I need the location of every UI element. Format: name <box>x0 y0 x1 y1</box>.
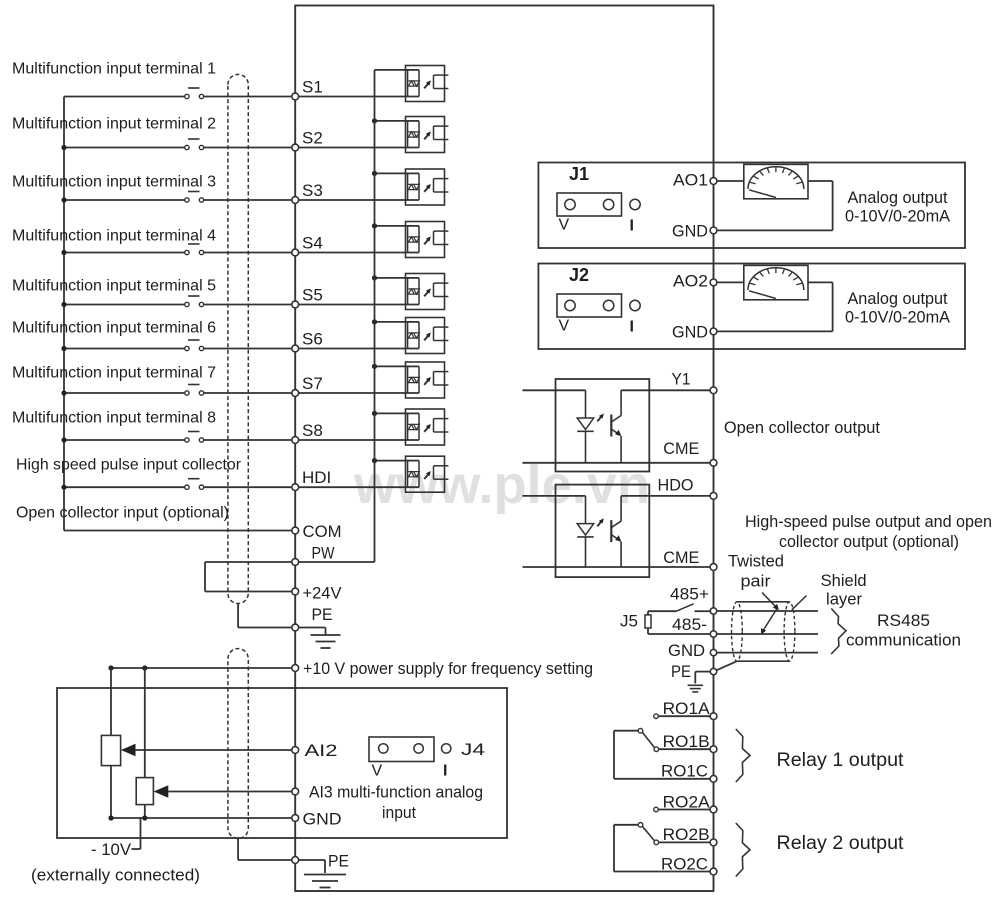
terminal AI2 <box>292 741 338 760</box>
jumper wire PW to +24V <box>205 561 292 563</box>
output optocoupler U11 light arrow <box>597 518 604 526</box>
svg-text:S6: S6 <box>302 330 323 349</box>
wire S4 to optocoupler <box>299 252 419 254</box>
terminal GND RS485 <box>668 641 717 660</box>
wire switch to terminal S5 <box>204 304 292 306</box>
svg-text:PE: PE <box>671 662 691 681</box>
wire row S6 left <box>64 348 185 350</box>
wire switch to terminal HDI <box>204 486 292 488</box>
svg-text:I: I <box>630 319 634 336</box>
potentiometer RP2 <box>136 668 153 818</box>
terminal S6 <box>292 330 323 352</box>
wire S7 to optocoupler <box>299 392 419 394</box>
wire S1 to optocoupler <box>299 96 419 98</box>
svg-text:Multifunction input terminal 6: Multifunction input terminal 6 <box>12 320 216 337</box>
terminal GND (J2) <box>672 323 717 342</box>
terminal S3 <box>292 181 323 203</box>
wire +24V bus branch row 6 <box>375 321 406 323</box>
switch SW1 <box>185 88 204 99</box>
junction on +24V bus row 4 <box>372 223 377 228</box>
svg-text:+24V: +24V <box>303 584 343 603</box>
svg-text:pair: pair <box>741 572 771 591</box>
terminal HDO <box>658 476 717 500</box>
svg-text:GND: GND <box>303 810 342 829</box>
junction on rail row HDI <box>61 485 66 490</box>
wire PE to shield layer <box>717 661 737 670</box>
terminal RO2B <box>663 825 717 846</box>
terminal RO2A <box>663 792 717 813</box>
terminal RO1B <box>663 732 717 753</box>
brace RS485 <box>831 609 846 655</box>
wire +10V supply to potentiometers <box>111 667 292 669</box>
terminal CME 2 <box>663 548 717 570</box>
relay RO2 pivot <box>638 823 643 828</box>
switch SW9 <box>185 479 204 490</box>
svg-text:HDO: HDO <box>658 476 694 495</box>
jumper J2 current pin <box>630 300 641 335</box>
wire 485+ into cable <box>717 610 818 612</box>
svg-text:PE: PE <box>328 852 349 871</box>
svg-text:Open collector output: Open collector output <box>724 418 880 437</box>
svg-text:S2: S2 <box>302 129 323 148</box>
external analog input box <box>57 688 507 838</box>
wire S8 to optocoupler <box>299 439 419 441</box>
svg-text:RO2C: RO2C <box>661 854 708 873</box>
analog output meter for AO1 <box>744 164 808 198</box>
junction on +24V bus row 6 <box>372 319 377 324</box>
svg-text:High-speed pulse output and op: High-speed pulse output and open <box>745 512 992 531</box>
svg-text:input: input <box>382 803 416 822</box>
output optocoupler U11 LED <box>523 496 594 567</box>
terminal PE RS485 <box>671 662 717 681</box>
wire +24V bus branch row 3 <box>375 172 406 174</box>
wire switch to terminal S8 <box>204 439 292 441</box>
svg-text:J5: J5 <box>620 612 638 631</box>
terminal S7 <box>292 374 323 396</box>
output optocoupler U10 phototransistor <box>611 390 621 463</box>
potentiometer RP1 wiper arrow <box>121 744 136 756</box>
terminating resistor J5 <box>620 612 651 631</box>
wire row S4 left <box>64 252 185 254</box>
switch SW3 <box>185 192 204 203</box>
svg-text:S1: S1 <box>302 78 323 97</box>
svg-text:HDI: HDI <box>302 468 331 487</box>
svg-text:+10 V power supply for frequen: +10 V power supply for frequency setting <box>303 659 593 678</box>
wire J5 to 485+ with switch <box>648 604 710 615</box>
terminal RO1C <box>661 762 717 783</box>
terminal GND (J1) <box>672 222 717 241</box>
jumper J1 <box>557 164 622 234</box>
svg-text:J2: J2 <box>569 265 589 285</box>
junction on rail row S5 <box>61 302 66 307</box>
relay RO1 blade <box>642 732 654 748</box>
svg-text:I: I <box>630 218 634 235</box>
relay RO2B contact and wire <box>654 840 710 845</box>
input optocoupler U4 <box>406 222 449 258</box>
wire +24V bus branch row 8 <box>375 412 406 414</box>
terminal PE bottom <box>292 852 349 871</box>
wire +24V bus branch row 5 <box>375 277 406 279</box>
terminal PW <box>292 544 335 566</box>
svg-text:RO1A: RO1A <box>663 699 711 718</box>
terminal CME <box>663 439 717 466</box>
terminal 485- <box>672 615 717 637</box>
svg-text:- 10V: - 10V <box>91 840 132 859</box>
left common rail wire <box>63 97 65 531</box>
inverter enclosure box <box>295 6 713 892</box>
terminal RO1A <box>663 699 717 720</box>
junction on +24V bus row 3 <box>372 171 377 176</box>
cable 2 shield drain wire to PE <box>237 838 239 860</box>
svg-text:0-10V/0-20mA: 0-10V/0-20mA <box>845 207 951 226</box>
relay RO1A contact and wire <box>654 714 711 719</box>
svg-text:Multifunction input terminal 1: Multifunction input terminal 1 <box>12 61 216 78</box>
terminal S2 <box>292 129 323 151</box>
wire row S3 left <box>64 199 185 201</box>
shielded cable analog inputs <box>228 649 248 839</box>
potentiometer RP2 wiper arrow <box>154 785 169 797</box>
svg-text:Multifunction input terminal 2: Multifunction input terminal 2 <box>12 116 216 133</box>
terminal S5 <box>292 286 323 308</box>
svg-text:Multifunction input terminal 7: Multifunction input terminal 7 <box>12 365 216 382</box>
relay RO2A contact and wire <box>654 807 711 812</box>
output optocoupler U10 light arrow <box>597 413 604 421</box>
wire +24V bus branch row 9 <box>375 460 406 462</box>
potentiometer RP1 <box>101 668 120 818</box>
svg-text:CME: CME <box>663 548 699 567</box>
wire RP1 wiper to AI2 <box>136 749 292 751</box>
svg-text:Relay 1 output: Relay 1 output <box>777 750 905 771</box>
svg-text:Y1: Y1 <box>672 370 691 389</box>
terminal COM <box>292 522 342 541</box>
junction on +24V bus row 5 <box>372 275 377 280</box>
junction on rail row S3 <box>61 197 66 202</box>
svg-text:communication: communication <box>846 631 961 650</box>
terminal GND analog <box>292 810 342 829</box>
analog output meter for AO2 <box>744 265 808 299</box>
switch SW5 <box>185 296 204 307</box>
output optocoupler U10 LED <box>523 390 594 463</box>
svg-text:0-10V/0-20mA: 0-10V/0-20mA <box>845 308 951 327</box>
wire U10 collector to terminal <box>621 389 710 391</box>
jumper J1 current pin <box>630 199 641 234</box>
wire PW to +24V bus <box>299 561 375 563</box>
svg-text:Analog output: Analog output <box>848 289 948 308</box>
analog output block J1 box <box>538 163 965 249</box>
wire GND into cable <box>717 652 818 654</box>
svg-text:S8: S8 <box>302 421 323 440</box>
cable 1 shield drain wire to PE <box>237 604 239 628</box>
terminal RO2C <box>661 854 717 875</box>
svg-text:S5: S5 <box>302 286 323 305</box>
terminal S8 <box>292 421 323 443</box>
wire AO1 to meter <box>717 180 744 182</box>
svg-text:AI2: AI2 <box>305 741 338 760</box>
jumper J2 <box>557 265 622 335</box>
terminal +10V <box>292 659 593 678</box>
label: Shield layer with leader <box>792 571 867 610</box>
wire +24V bus branch row 7 <box>375 365 406 367</box>
svg-text:GND: GND <box>672 222 708 241</box>
wire meter to GND (J1) <box>808 180 833 182</box>
svg-text:High speed pulse input collect: High speed pulse input collector <box>16 457 242 474</box>
switch SW4 <box>185 244 204 255</box>
brace relay RO2 <box>736 823 750 877</box>
svg-text:Open collector input (optional: Open collector input (optional) <box>16 505 229 522</box>
svg-text:Multifunction input terminal 5: Multifunction input terminal 5 <box>12 278 216 295</box>
svg-text:collector output (optional): collector output (optional) <box>779 532 959 551</box>
leader -10V to common wire <box>132 848 141 850</box>
terminal PE <box>292 605 333 631</box>
svg-text:Multifunction input terminal 3: Multifunction input terminal 3 <box>12 174 216 191</box>
wire switch to terminal S4 <box>204 252 292 254</box>
svg-text:Relay 2 output: Relay 2 output <box>777 833 905 854</box>
brace relay RO1 <box>736 729 750 782</box>
wire row S8 left <box>64 439 185 441</box>
svg-text:S4: S4 <box>302 234 323 253</box>
junction on rail row S6 <box>61 346 66 351</box>
shielded cable digital inputs <box>228 74 248 603</box>
wire +24V bus branch row 1 <box>375 69 406 71</box>
wire S5 to optocoupler <box>299 304 419 306</box>
svg-text:CME: CME <box>663 439 699 458</box>
wire row HDI left <box>64 486 185 488</box>
relay RO2 common wire <box>614 825 710 872</box>
ground symbol at RS485 PE <box>688 672 711 692</box>
wire switch to terminal S1 <box>204 96 292 98</box>
junction on +24V bus row 2 <box>372 118 377 123</box>
svg-text:Analog output: Analog output <box>848 188 948 207</box>
svg-text:V: V <box>372 763 383 780</box>
relay RO2 blade <box>642 826 654 841</box>
input optocoupler U7 <box>406 362 449 398</box>
wire row S5 left <box>64 304 185 306</box>
svg-text:GND: GND <box>672 323 708 342</box>
svg-text:PW: PW <box>312 544 335 563</box>
terminal AI3 <box>292 788 299 795</box>
svg-text:J4: J4 <box>461 740 485 759</box>
wire row S1 left <box>64 96 185 98</box>
analog common wire to GND <box>111 817 292 819</box>
wire U10 emitter/common <box>523 462 711 464</box>
output optocoupler U11 box <box>556 485 650 577</box>
analog output block J2 box <box>538 264 965 350</box>
input optocoupler U1 <box>406 66 449 102</box>
svg-text:COM: COM <box>303 522 342 541</box>
input optocoupler U9 <box>406 456 449 492</box>
ground symbol at bottom PE <box>299 860 346 888</box>
wire S2 to optocoupler <box>299 147 419 149</box>
junction on rail row S4 <box>61 250 66 255</box>
input optocoupler U3 <box>406 169 449 205</box>
svg-text:AO2: AO2 <box>673 272 708 291</box>
terminal AO1 <box>673 171 717 190</box>
ground symbol at PE <box>299 628 341 649</box>
input optocoupler U2 <box>406 117 449 153</box>
junction on rail row S7 <box>61 390 66 395</box>
switch SW7 <box>185 385 204 396</box>
terminal 485+ <box>670 585 717 615</box>
svg-text:V: V <box>559 318 570 335</box>
svg-text:S7: S7 <box>302 374 323 393</box>
terminal HDI <box>292 468 331 490</box>
svg-text:layer: layer <box>826 590 862 609</box>
svg-text:RO2B: RO2B <box>663 825 710 844</box>
wire switch to terminal S2 <box>204 147 292 149</box>
svg-text:Multifunction input terminal 8: Multifunction input terminal 8 <box>12 410 216 427</box>
wire row S2 left <box>64 147 185 149</box>
svg-text:I: I <box>443 763 447 780</box>
wire +24V bus branch row 4 <box>375 225 406 227</box>
output optocoupler U10 box <box>556 379 650 472</box>
input optocoupler U5 <box>406 274 449 310</box>
wire AO2 to meter <box>717 281 744 283</box>
wire J5 to 485- <box>648 628 710 634</box>
wire HDI to optocoupler <box>299 486 419 488</box>
junction on rail row S2 <box>61 145 66 150</box>
junction on +24V bus row 9 <box>372 458 377 463</box>
wire open collector input to COM <box>64 530 292 532</box>
wire row S7 left <box>64 392 185 394</box>
svg-text:GND: GND <box>668 641 705 660</box>
jumper J4 current pin <box>442 740 486 780</box>
svg-text:S3: S3 <box>302 181 323 200</box>
wire switch to terminal S6 <box>204 348 292 350</box>
wire 485- into cable <box>717 633 818 635</box>
terminal Y1 <box>672 370 717 394</box>
terminal S1 <box>292 78 323 100</box>
svg-text:RS485: RS485 <box>877 611 930 630</box>
terminal +24V <box>292 584 342 603</box>
svg-text:AO1: AO1 <box>673 171 708 190</box>
svg-text:485-: 485- <box>672 615 707 634</box>
jumper J4 <box>369 737 434 780</box>
svg-text:RO1C: RO1C <box>661 762 708 781</box>
switch SW2 <box>185 139 204 150</box>
junction on +24V bus row 7 <box>372 364 377 369</box>
relay RO1 common wire <box>614 731 710 779</box>
svg-text:Multifunction input terminal 4: Multifunction input terminal 4 <box>12 228 216 245</box>
terminal AO2 <box>673 272 717 291</box>
junction on +24V bus row 8 <box>372 411 377 416</box>
relay RO1B contact and wire <box>654 747 710 752</box>
svg-text:PE: PE <box>312 605 333 624</box>
input optocoupler U6 <box>406 318 449 354</box>
input optocoupler U8 <box>406 409 449 445</box>
wire S3 to optocoupler <box>299 199 419 201</box>
svg-text:RO2A: RO2A <box>663 792 711 811</box>
+24V bus vertical wire (PW to optocouplers) <box>374 70 376 562</box>
svg-text:J1: J1 <box>569 164 589 184</box>
label: Twisted pair with leader <box>728 552 784 635</box>
switch SW6 <box>185 340 204 351</box>
junction on rail row S8 <box>61 437 66 442</box>
svg-text:RO1B: RO1B <box>663 732 710 751</box>
cable shield cylinder <box>732 602 795 661</box>
wire +24V bus branch row 2 <box>375 120 406 122</box>
relay RO1 pivot <box>638 728 643 733</box>
svg-text:V: V <box>559 217 570 234</box>
wire U11 collector to terminal <box>621 495 710 497</box>
wire U11 emitter/common <box>523 566 711 568</box>
wire S6 to optocoupler <box>299 348 419 350</box>
terminal S4 <box>292 234 323 256</box>
svg-text:Twisted: Twisted <box>728 552 784 571</box>
svg-text:485+: 485+ <box>670 585 709 604</box>
svg-text:Shield: Shield <box>821 571 867 590</box>
wire meter to GND (J2) <box>808 281 833 283</box>
switch SW8 <box>185 432 204 443</box>
wire switch to terminal S7 <box>204 392 292 394</box>
wire switch to terminal S3 <box>204 199 292 201</box>
wire RP2 wiper to AI3 <box>168 791 291 793</box>
svg-text:AI3 multi-function analog: AI3 multi-function analog <box>309 783 483 802</box>
output optocoupler U11 phototransistor <box>611 496 621 567</box>
svg-text:(externally connected): (externally connected) <box>31 866 200 885</box>
